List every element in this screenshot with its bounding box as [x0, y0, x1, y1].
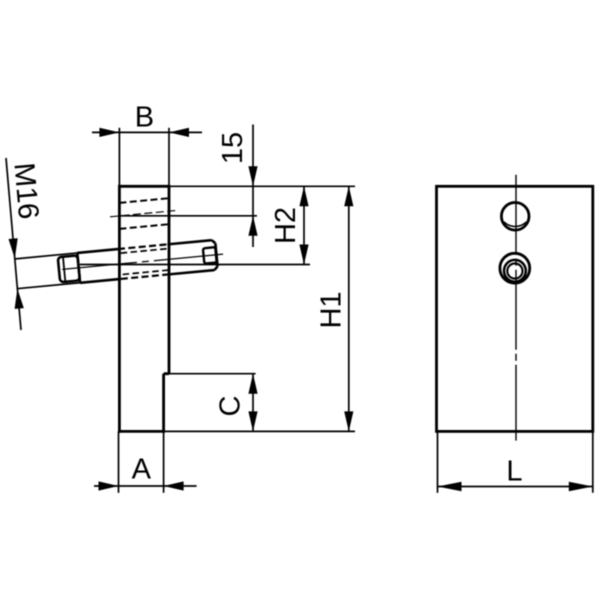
svg-text:C: C	[215, 396, 247, 417]
svg-text:H1: H1	[316, 291, 348, 328]
svg-text:A: A	[132, 453, 152, 485]
svg-text:M16: M16	[7, 162, 44, 221]
svg-text:B: B	[135, 101, 154, 133]
svg-text:H2: H2	[270, 207, 302, 244]
svg-text:L: L	[506, 456, 522, 488]
svg-text:15: 15	[217, 132, 249, 164]
